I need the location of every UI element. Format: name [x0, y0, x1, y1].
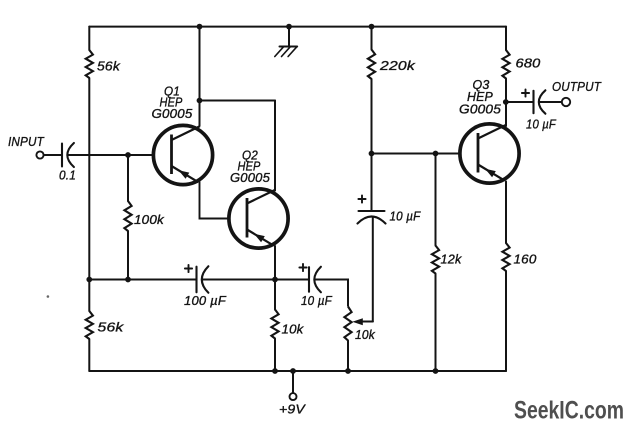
wire: bottom rail — [89, 370, 506, 372]
resistor 56k (upper left) — [86, 50, 93, 78]
resistor 10k (Q2 emitter) — [271, 310, 278, 339]
node: Q1-Q2 collector junction — [197, 98, 203, 104]
wire: C 0.1 to Q1 base — [68, 154, 155, 156]
wire: +9V stub — [292, 371, 294, 393]
transistor Q2 HEP G0005 — [229, 189, 288, 248]
node: pot / bottom rail — [345, 368, 351, 374]
resistor 680 — [502, 50, 509, 79]
wire: bias row left (rail to 100uF) — [89, 279, 196, 281]
svg-text:SeekIC.com: SeekIC.com — [514, 398, 624, 425]
svg-text:G0005: G0005 — [230, 170, 271, 185]
svg-text:100k: 100k — [134, 212, 165, 227]
svg-text:10 µF: 10 µF — [301, 293, 333, 308]
node: Q2 emitter / 10k — [272, 277, 278, 283]
wire: 100k upper lead — [127, 155, 129, 201]
+9V terminal — [290, 393, 297, 400]
wire: collector junction to Q2 collector column — [200, 100, 276, 102]
svg-text:56k: 56k — [98, 320, 126, 335]
wire: 100uF to Q2 emitter node and 10uF — [203, 279, 309, 281]
node: input junction with 100k — [125, 152, 131, 158]
capacitor 10 uF (feedback, vertical) — [358, 198, 365, 200]
wire: 10k lower lead — [274, 339, 276, 372]
wire: mid node down to 10uF cap — [371, 154, 373, 212]
node: Q3 collector / output — [503, 99, 509, 105]
input terminal — [36, 151, 43, 158]
svg-text:680: 680 — [516, 56, 542, 71]
speck artifact — [47, 295, 50, 298]
wire: 12k lower lead — [435, 274, 437, 372]
node: 12k / bottom rail — [433, 368, 439, 374]
wire: 220k to mid node — [371, 79, 373, 154]
svg-text:0.1: 0.1 — [59, 168, 76, 183]
wire: cap to output terminal — [540, 101, 562, 103]
svg-text:160: 160 — [514, 252, 538, 267]
svg-text:220k: 220k — [379, 58, 417, 73]
svg-text:10 µF: 10 µF — [526, 117, 557, 132]
wire: left rail lower segment — [88, 339, 90, 371]
wire: 680 to Q3 collector — [505, 79, 507, 127]
wire: Q1 collector column from top rail — [199, 27, 201, 126]
node: bias row / 100k — [125, 277, 131, 283]
svg-text:+9V: +9V — [279, 402, 306, 417]
svg-text:OUTPUT: OUTPUT — [552, 79, 602, 94]
svg-text:INPUT: INPUT — [8, 134, 45, 149]
node: +9V tap on bottom rail — [290, 368, 296, 374]
svg-text:56k: 56k — [97, 59, 121, 74]
svg-text:100 µF: 100 µF — [184, 293, 227, 308]
wire: mid node to Q3 base — [372, 153, 461, 155]
capacitor 10 uF (bias row) — [299, 267, 306, 269]
pot wiper arrow — [362, 321, 373, 323]
wire: left rail upper segment — [88, 27, 90, 50]
svg-text:12k: 12k — [441, 252, 463, 267]
svg-text:G0005: G0005 — [152, 106, 194, 121]
wire: 10uF down to pot wiper — [372, 217, 374, 322]
svg-text:10k: 10k — [282, 322, 305, 337]
ground — [286, 24, 292, 30]
capacitor 10 uF (output) — [522, 92, 529, 94]
transistor Q3 HEP G0005 — [460, 124, 519, 183]
node: 10k / bottom rail — [272, 368, 278, 374]
svg-text:10 µF: 10 µF — [390, 209, 422, 224]
resistor 100k — [124, 201, 131, 231]
node: bias row / left rail — [86, 277, 92, 283]
node: mid node (220k / 10uF / Q3 base) — [369, 151, 375, 157]
svg-text:10k: 10k — [355, 327, 376, 342]
wire: right rail upper segment — [505, 27, 507, 50]
wire: 10uF to pot top — [315, 280, 348, 307]
node: top rail / 220k — [369, 24, 375, 30]
wire: 220k upper lead — [371, 27, 373, 50]
potentiometer 10k body — [344, 307, 351, 341]
resistor 12k — [432, 246, 439, 274]
wire: 160 lower lead — [505, 271, 507, 371]
resistor 160 — [502, 243, 509, 271]
wire: left rail middle segment — [88, 78, 90, 311]
transistor Q1 HEP G0005 — [153, 125, 212, 184]
resistor 56k (lower left) — [86, 311, 93, 339]
capacitor 0.1 (input coupling) — [61, 144, 63, 167]
wire: 100k lower lead — [127, 231, 129, 280]
wire: Q2 emitter down to bias row — [274, 246, 276, 280]
wire: top supply rail — [89, 26, 506, 28]
output terminal — [562, 98, 570, 106]
wire: pot lower lead — [347, 341, 349, 372]
wire: Q3 emitter to 160 — [505, 182, 507, 244]
wire: 12k upper lead — [435, 154, 437, 246]
wire: Q1 emitter to Q2 base — [200, 182, 231, 219]
resistor 220k — [368, 50, 375, 80]
node: top rail / Q1 column — [197, 24, 203, 30]
wire: 10k upper lead — [274, 280, 276, 310]
wire: output node to 10uF — [506, 101, 533, 103]
capacitor 100 uF — [185, 268, 192, 270]
svg-text:G0005: G0005 — [459, 102, 502, 117]
wire: input terminal to C 0.1 — [44, 154, 62, 156]
wire: Q2 collector column — [274, 101, 276, 191]
node: mid row / 12k — [433, 151, 439, 157]
